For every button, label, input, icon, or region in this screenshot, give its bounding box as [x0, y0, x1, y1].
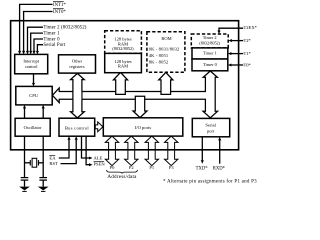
- svg-text:T2*: T2*: [244, 38, 252, 43]
- svg-text:RAM: RAM: [118, 64, 128, 69]
- svg-text:8K - 8052: 8K - 8052: [149, 60, 169, 65]
- svg-text:* Alternate pin assignments fo: * Alternate pin assignments for P1 and P…: [163, 179, 257, 184]
- svg-text:P0: P0: [110, 165, 116, 170]
- svg-text:T0*: T0*: [244, 63, 252, 68]
- svg-text:RXD*: RXD*: [213, 167, 226, 172]
- svg-text:registers: registers: [69, 64, 84, 69]
- svg-text:I/O ports: I/O ports: [135, 125, 152, 130]
- svg-text:CPU: CPU: [29, 93, 39, 98]
- svg-text:Timer 0: Timer 0: [43, 37, 60, 42]
- svg-text:ROM: ROM: [161, 36, 171, 41]
- svg-text:Address/data: Address/data: [107, 174, 137, 180]
- svg-text:P1: P1: [149, 165, 154, 170]
- svg-text:Serial Port: Serial Port: [43, 43, 66, 48]
- svg-text:ALE: ALE: [94, 156, 103, 161]
- svg-text:RST: RST: [49, 161, 58, 166]
- svg-text:Timer 2: Timer 2: [203, 35, 217, 40]
- svg-text:(8032/8052): (8032/8052): [199, 41, 220, 46]
- svg-text:4K - 8051: 4K - 8051: [149, 53, 169, 58]
- svg-text:P3: P3: [169, 165, 175, 170]
- svg-text:control: control: [25, 64, 38, 69]
- svg-text:TXD*: TXD*: [196, 167, 209, 172]
- svg-text:Other: Other: [72, 58, 83, 63]
- svg-text:Timer 2 (8032/8052): Timer 2 (8032/8052): [43, 26, 86, 31]
- svg-text:Timer 1: Timer 1: [43, 31, 60, 36]
- svg-text:T2EX*: T2EX*: [244, 25, 258, 30]
- svg-text:T1*: T1*: [244, 51, 252, 56]
- svg-text:Bus control: Bus control: [65, 125, 90, 130]
- svg-text:Interrupt: Interrupt: [23, 58, 39, 63]
- svg-text:Timer 1: Timer 1: [203, 51, 217, 56]
- svg-text:INT0*: INT0*: [53, 10, 66, 15]
- svg-text:PSEN: PSEN: [94, 162, 106, 167]
- svg-text:Timer 0: Timer 0: [203, 62, 218, 67]
- svg-text:Serial: Serial: [205, 123, 216, 128]
- svg-text:INT1*: INT1*: [53, 3, 66, 8]
- svg-text:EA: EA: [49, 156, 56, 161]
- svg-text:P2: P2: [129, 165, 134, 170]
- svg-text:0K - 8031/8032: 0K - 8031/8032: [149, 46, 180, 51]
- svg-text:(8032/8052): (8032/8052): [112, 46, 134, 51]
- svg-text:port: port: [207, 128, 215, 133]
- svg-text:Oscillator: Oscillator: [24, 125, 42, 130]
